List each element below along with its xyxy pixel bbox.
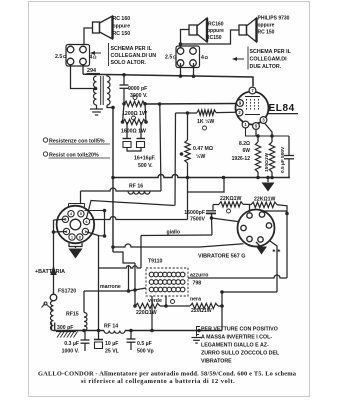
svg-text:oppure: oppure xyxy=(258,23,275,29)
svg-text:16+16µF.: 16+16µF. xyxy=(134,156,156,162)
svg-text:PER VETTURE CON POSITIVO: PER VETTURE CON POSITIVO xyxy=(201,327,278,333)
svg-text:7500V: 7500V xyxy=(190,217,206,223)
svg-text:1000 V.: 1000 V. xyxy=(62,349,80,355)
svg-text:8: 8 xyxy=(79,235,81,239)
svg-text:22KΩ1W: 22KΩ1W xyxy=(220,196,242,202)
svg-text:+BATTERIA: +BATTERIA xyxy=(35,269,65,275)
svg-text:RC160: RC160 xyxy=(208,22,224,28)
svg-text:COLLEGAN.DI UN: COLLEGAN.DI UN xyxy=(111,53,157,59)
svg-text:PHILIPS 9730: PHILIPS 9730 xyxy=(258,16,290,22)
svg-text:oppure: oppure xyxy=(207,28,224,34)
svg-text:1600Ω 1W: 1600Ω 1W xyxy=(121,129,146,135)
svg-text:½W: ½W xyxy=(196,153,205,160)
svg-text:0.47 MΩ: 0.47 MΩ xyxy=(193,146,213,152)
svg-text:RC 150: RC 150 xyxy=(113,31,131,37)
svg-text:FS1720: FS1720 xyxy=(58,289,76,295)
svg-text:marrone: marrone xyxy=(100,284,121,290)
svg-text:6: 6 xyxy=(86,220,88,224)
svg-text:EL84: EL84 xyxy=(269,103,295,114)
svg-text:Ω: Ω xyxy=(173,55,177,60)
svg-text:10 µF: 10 µF xyxy=(105,341,118,347)
svg-text:verde: verde xyxy=(148,298,162,304)
svg-text:si riferisce al collegamento a: si riferisce al collegamento a batteria … xyxy=(81,378,235,385)
svg-text:RF 16: RF 16 xyxy=(129,184,143,190)
svg-text:VIBRATORE: VIBRATORE xyxy=(201,359,232,365)
svg-text:SCHEMA PER IL: SCHEMA PER IL xyxy=(111,46,153,52)
svg-text:oppure: oppure xyxy=(113,24,131,30)
svg-text:ZURRO SULLO ZOCCOLO DEL: ZURRO SULLO ZOCCOLO DEL xyxy=(201,351,280,357)
svg-text:5: 5 xyxy=(80,212,82,216)
svg-text:RC150: RC150 xyxy=(206,35,222,41)
svg-text:220Ω1W: 220Ω1W xyxy=(191,308,212,314)
svg-text:1926-12: 1926-12 xyxy=(232,156,251,162)
svg-text:COLLEGAM.DI: COLLEGAM.DI xyxy=(250,57,288,63)
svg-text:giallo: giallo xyxy=(167,230,181,236)
svg-text:T9110: T9110 xyxy=(148,259,163,265)
svg-text:220Ω1W: 220Ω1W xyxy=(136,310,157,316)
svg-text:RC 160: RC 160 xyxy=(113,16,131,22)
svg-text:0.5 µF 500V: 0.5 µF 500V xyxy=(280,146,286,173)
svg-text:16000pF: 16000pF xyxy=(184,210,205,216)
svg-text:RC 150: RC 150 xyxy=(258,30,275,36)
svg-text:Ω: Ω xyxy=(205,55,209,60)
svg-text:150Ω1W: 150Ω1W xyxy=(264,152,270,172)
svg-text:0.3 µF: 0.3 µF xyxy=(64,341,79,347)
svg-text:500 V.: 500 V. xyxy=(138,163,153,169)
svg-text:DUE ALTOR.: DUE ALTOR. xyxy=(250,64,282,70)
svg-text:Ω: Ω xyxy=(93,55,97,60)
svg-text:4: 4 xyxy=(70,212,72,216)
svg-text:8.2Ω: 8.2Ω xyxy=(239,141,250,147)
svg-text:0.5 µF: 0.5 µF xyxy=(137,341,152,347)
svg-text:9000 pF: 9000 pF xyxy=(128,86,147,92)
svg-text:RF 14: RF 14 xyxy=(104,324,118,330)
svg-text:nera: nera xyxy=(190,297,201,303)
svg-text:RF15: RF15 xyxy=(66,312,79,318)
svg-text:VIBRATORE 567 G: VIBRATORE 567 G xyxy=(198,254,245,260)
svg-text:Ω: Ω xyxy=(63,54,67,59)
svg-text:LEGAMENTI GIALLO E AZ-: LEGAMENTI GIALLO E AZ- xyxy=(201,343,269,349)
svg-text:SCHEMA PER IL: SCHEMA PER IL xyxy=(250,49,292,55)
svg-text:2.5: 2.5 xyxy=(165,55,172,61)
svg-text:2.5: 2.5 xyxy=(55,54,62,60)
svg-text:25 VL: 25 VL xyxy=(105,349,120,355)
svg-text:22KΩ1W: 22KΩ1W xyxy=(254,197,276,203)
svg-text:GALLO-CONDOR - Alimentatore pe: GALLO-CONDOR - Alimentatore per autoradi… xyxy=(38,371,297,378)
svg-text:1: 1 xyxy=(71,235,73,239)
svg-text:500 Vp: 500 Vp xyxy=(137,349,154,355)
svg-text:798: 798 xyxy=(193,281,202,287)
svg-text:A MASSA INVERTIRE I COL-: A MASSA INVERTIRE I COL- xyxy=(201,335,272,341)
svg-text:1K ½W: 1K ½W xyxy=(197,118,214,125)
svg-text:SOLO ALTOR.: SOLO ALTOR. xyxy=(111,60,147,66)
svg-text:6W: 6W xyxy=(243,148,251,154)
